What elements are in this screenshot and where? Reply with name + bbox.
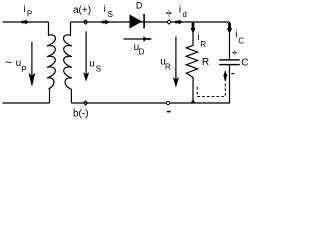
current arrow iP [22,20,30,25]
svg-text:C: C [238,37,244,46]
node diamond after diode [167,20,171,24]
junction dot resistor bottom [191,100,195,103]
svg-text:i: i [104,4,106,15]
wire secondary top [71,21,230,23]
current arrow id [175,20,183,25]
svg-text:C: C [241,58,248,69]
capacitor branch top lead [229,22,231,59]
current arrow iS [102,20,110,25]
label iP [23,4,32,18]
svg-text:P: P [21,65,26,74]
svg-text:d: d [182,10,186,19]
label uP [16,58,27,74]
capacitor plus label [233,50,237,55]
resistor R zigzag [186,22,197,103]
capacitor C top plate [219,59,240,60]
current arrow iR down [190,23,195,33]
annotation arrow uS down [84,31,89,80]
svg-text:u: u [89,58,95,69]
node circle bottom [166,101,169,104]
dashed loop arrowhead up [223,70,227,79]
svg-text:~: ~ [5,55,12,69]
label iC [235,29,244,46]
diode D cathode bar [143,14,145,29]
capacitor C bottom plate [219,64,240,65]
capacitor minus label [231,73,234,74]
label id [179,4,187,19]
label plus at node [166,10,171,17]
node terminal b diamond [83,101,87,105]
label iR [197,32,206,49]
label uR [160,56,171,71]
wire primary top [3,21,49,23]
label uS [89,58,101,73]
svg-text:i: i [235,29,237,40]
capacitor branch bottom lead [229,65,231,103]
annotation arrow uP down [29,42,34,86]
node terminal a diamond [83,20,87,24]
svg-text:i: i [197,32,199,43]
svg-text:S: S [96,64,101,73]
svg-text:R: R [202,57,209,68]
svg-text:i: i [23,4,25,15]
transformer secondary winding L2 [64,22,72,103]
svg-text:i: i [179,4,181,15]
annotation arrow uD right [123,36,152,42]
current arrow iC down [227,23,232,34]
label uD [134,42,145,57]
label iS [104,4,113,19]
svg-text:P: P [27,9,32,18]
dashed current loop [197,80,225,97]
svg-text:R: R [200,40,206,49]
svg-text:D: D [136,0,143,10]
wire secondary bottom [71,102,230,104]
diode D triangle [130,14,143,28]
svg-text:a(+): a(+) [73,5,91,16]
annotation arrow uR down [174,37,179,86]
transformer primary winding L1 [47,22,55,103]
svg-text:D: D [139,48,145,57]
svg-text:S: S [108,10,113,19]
wire primary bottom [3,102,50,104]
label minus at bottom node [167,111,171,113]
svg-text:b(-): b(-) [73,108,89,119]
svg-text:R: R [165,63,171,72]
